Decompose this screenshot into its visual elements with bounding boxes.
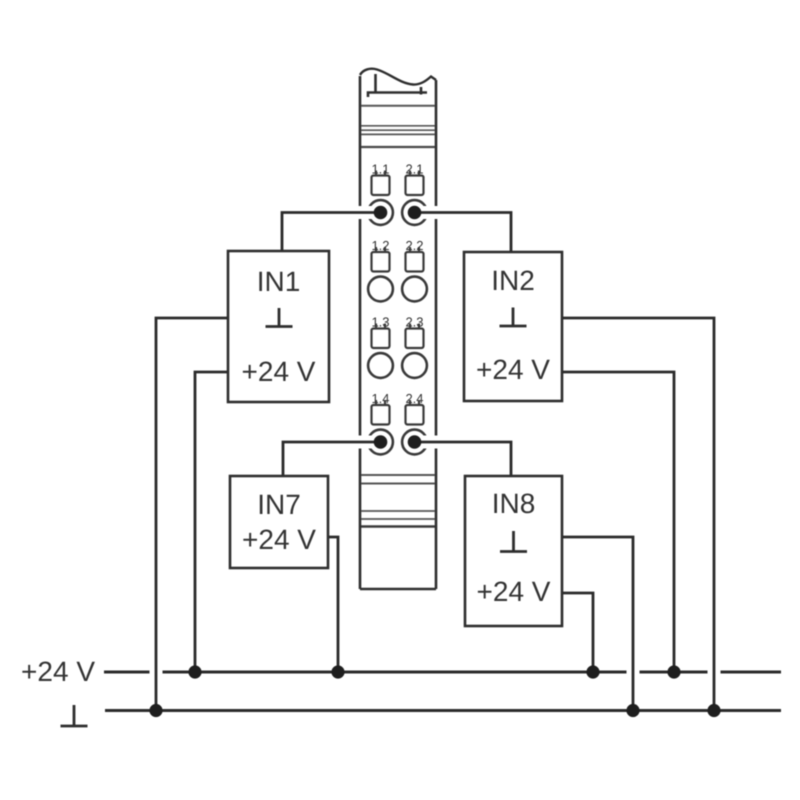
svg-text:1.3: 1.3: [371, 315, 389, 330]
terminal 2.3 indicator: [406, 329, 424, 349]
sensor box IN7: [230, 476, 328, 568]
terminal 1.2 clamp circle: [368, 277, 393, 302]
junction IN2 ground on 0V rail: [707, 704, 720, 717]
terminal 1.3 clamp circle: [368, 353, 393, 378]
junction IN8 +24V on supply rail: [586, 665, 599, 678]
terminal 2.2 clamp circle: [402, 277, 427, 302]
terminal 2.3 clamp circle: [402, 353, 427, 378]
wire halos: [156, 213, 714, 712]
junction IN1 ground on 0V rail: [149, 704, 162, 717]
svg-text:IN1: IN1: [257, 266, 301, 297]
terminal 2.4 clamp circle: [402, 430, 427, 455]
svg-text:+24 V: +24 V: [242, 524, 316, 555]
junction IN2 +24V on supply rail: [667, 665, 680, 678]
+24V supply rail: [104, 671, 781, 674]
svg-text:IN7: IN7: [257, 489, 301, 520]
svg-text:2.2: 2.2: [405, 238, 423, 253]
wire IN2 to terminal 2.1: [414, 213, 511, 253]
svg-text:+24 V: +24 V: [476, 354, 550, 385]
IN8 ground symbol: [500, 531, 527, 552]
terminal 2.2 indicator: [406, 252, 424, 272]
terminal 1.1 indicator: [372, 176, 390, 196]
sensor box IN8: [465, 476, 562, 626]
terminal 1.1 clamp circle: [368, 200, 393, 225]
sensor box IN1: [228, 251, 329, 402]
junction IN1 +24V on supply rail: [188, 665, 201, 678]
IN1 ground symbol: [266, 308, 293, 327]
terminal 2.1 indicator: [406, 176, 424, 196]
wire IN7 +24V to supply rail: [328, 537, 338, 672]
ground symbol at rail: [61, 705, 88, 726]
svg-text:2.3: 2.3: [405, 315, 423, 330]
IN2 ground symbol: [500, 308, 527, 327]
svg-text:1.2: 1.2: [371, 238, 389, 253]
svg-text:+24 V: +24 V: [477, 576, 551, 607]
svg-text:1.4: 1.4: [371, 391, 389, 406]
terminal dot 2.1: [408, 206, 422, 220]
module ridge lines: [361, 106, 435, 527]
sensor box IN2: [464, 252, 562, 401]
terminal 1.4 indicator: [372, 405, 390, 425]
terminal 1.4 clamp circle: [368, 430, 393, 455]
module break bar: [368, 74, 427, 97]
wire IN2 +24V to supply rail: [562, 372, 674, 672]
terminal 2.1 clamp circle: [402, 200, 427, 225]
terminal dot 2.4: [408, 435, 422, 449]
junction IN8 ground on 0V rail: [626, 704, 639, 717]
wire IN8 ground to 0V rail: [562, 537, 633, 711]
module body outline: [360, 69, 436, 589]
svg-text:1.1: 1.1: [371, 162, 389, 177]
svg-text:2.1: 2.1: [405, 162, 423, 177]
wire IN8 to terminal 2.4: [414, 442, 511, 476]
wire IN8 +24V to supply rail: [562, 593, 593, 672]
svg-text:+24 V: +24 V: [242, 356, 316, 387]
terminal 2.4 indicator: [406, 405, 424, 425]
wire IN1 +24V to supply rail: [195, 372, 228, 672]
terminal 1.3 indicator: [372, 329, 390, 349]
junction IN7 +24V on supply rail: [331, 665, 344, 678]
wire IN1 ground to 0V rail: [156, 318, 228, 711]
terminal dot 1.4: [374, 435, 388, 449]
wire IN7 to terminal 1.4: [283, 442, 381, 476]
svg-text:+24 V: +24 V: [21, 656, 95, 687]
svg-text:2.4: 2.4: [405, 391, 423, 406]
0V ground rail: [105, 709, 781, 712]
wire IN1 to terminal 1.1: [282, 213, 381, 252]
wire IN2 ground to 0V rail: [562, 318, 714, 711]
svg-text:IN2: IN2: [491, 265, 535, 296]
terminal dot 1.1: [374, 206, 388, 220]
terminal group rows: [368, 171, 427, 455]
svg-text:IN8: IN8: [492, 488, 536, 519]
terminal 1.2 indicator: [372, 252, 390, 272]
